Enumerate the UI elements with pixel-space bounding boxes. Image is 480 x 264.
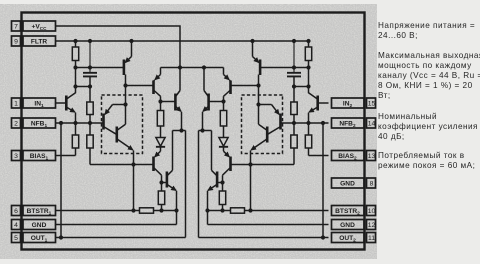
resistor R3: [72, 123, 78, 156]
svg-text:8: 8: [370, 181, 374, 188]
svg-text:15: 15: [368, 101, 376, 108]
pin 5 OUT (left): [12, 233, 56, 244]
svg-text:13: 13: [368, 153, 376, 160]
wire BTSTR: [208, 210, 329, 212]
pin 1 IN (left): [12, 98, 56, 109]
dashed box bias network: [102, 95, 143, 154]
dashed box bias network: [242, 95, 283, 154]
transistor Q8 (output): [162, 131, 177, 225]
resistor R12: [220, 102, 226, 138]
resistor R11: [291, 123, 297, 165]
resistor R14 (bootstrap): [231, 208, 245, 213]
diode VD2: [219, 138, 228, 152]
wire node cap-collector: [76, 86, 91, 88]
transistor Q2 (ripple filter): [124, 41, 132, 75]
transistor Q11: [259, 105, 281, 135]
pin 14 NFB (right): [332, 118, 376, 129]
wire driver feed: [258, 75, 260, 105]
transistor Q10 (ripple filter): [253, 41, 261, 75]
resistor R8: [305, 41, 311, 68]
wire driver feed: [125, 75, 127, 105]
pin 10 BTSTR (right): [332, 206, 376, 217]
svg-text:10: 10: [368, 208, 376, 215]
svg-text:5: 5: [14, 235, 18, 242]
pin 12 GND (right): [332, 220, 376, 230]
wire feedback vertical: [60, 123, 62, 238]
channel 1 amplifier: [56, 39, 186, 240]
svg-text:1: 1: [14, 101, 18, 108]
transistor Q16 (output): [208, 131, 223, 225]
svg-text:7: 7: [14, 24, 18, 31]
pin 15 IN (right): [332, 98, 376, 109]
svg-text:GND: GND: [32, 222, 47, 229]
wire driver collector link: [199, 130, 212, 132]
pin 6 BTSTR (left): [12, 206, 56, 217]
wire bias-driver base: [90, 164, 153, 166]
junction dots: [200, 39, 325, 240]
wire feedback vertical: [322, 123, 324, 238]
wire BIAS: [309, 155, 329, 157]
wire BTSTR: [56, 210, 177, 212]
resistor R2: [87, 102, 93, 123]
resistor R13: [219, 191, 225, 211]
svg-text:GND: GND: [340, 180, 355, 187]
diode VD1: [156, 138, 165, 152]
pin 2 NFB (left): [12, 118, 56, 129]
wire GND: [208, 224, 329, 226]
transistor Q5: [154, 68, 161, 102]
resistor R10: [305, 123, 311, 156]
wire OUT: [199, 131, 329, 238]
wire second stage base: [126, 85, 153, 87]
transistor Q12: [251, 105, 267, 150]
node Vcc rail junctions: [178, 65, 206, 69]
right side text block: [378, 21, 480, 41]
wire driver collector link: [173, 130, 186, 132]
transistor Q15 (driver PNP): [223, 151, 231, 191]
svg-text:6: 6: [14, 208, 18, 215]
resistor R5: [157, 102, 163, 138]
wire node cap-collector: [294, 86, 309, 88]
capacitor C2: [287, 41, 301, 102]
svg-text:GND: GND: [340, 222, 355, 229]
wire second stage base: [231, 85, 258, 87]
wire Vcc rail center: [161, 67, 224, 69]
transistor Q1 (input): [56, 93, 76, 123]
resistor R6: [158, 191, 164, 211]
resistor R9: [291, 102, 297, 123]
svg-text:14: 14: [368, 121, 376, 128]
transistor Q3: [104, 105, 126, 135]
transistor Q6: [161, 68, 182, 131]
pin 9 FLTR (left): [12, 36, 56, 46]
pin 13 BIAS (right): [332, 151, 376, 162]
svg-text:2: 2: [14, 121, 18, 128]
wire collector drop Q9: [308, 68, 310, 94]
svg-text:12: 12: [368, 222, 376, 229]
wire collector drop Q1: [75, 68, 77, 94]
transistor Q7 (driver PNP): [154, 151, 162, 191]
svg-text:9: 9: [14, 39, 18, 46]
wire bootstrap vertical: [133, 151, 135, 211]
channel 2 amplifier (mirror): [199, 39, 329, 240]
pin 7 +V (left): [12, 21, 56, 31]
outer IC box: [22, 13, 365, 250]
wire bootstrap vertical: [250, 151, 252, 211]
transistor Q13: [224, 68, 231, 102]
resistor R4: [87, 123, 93, 165]
wire FLTR: [56, 40, 309, 42]
pin 4 GND (left): [12, 220, 56, 230]
wire NFB: [281, 122, 328, 124]
wire BIAS: [56, 155, 76, 157]
wire NFB: [56, 122, 103, 124]
wire rail left: [76, 67, 124, 69]
wire OUT: [56, 131, 186, 238]
pin 11 OUT (right): [332, 233, 376, 244]
pin 8 GND (right): [332, 178, 376, 188]
pin 3 BIAS (left): [12, 151, 56, 162]
junction dots: [59, 39, 184, 240]
transistor Q14: [203, 68, 224, 131]
transistor Q4: [117, 105, 133, 150]
wire rail left: [261, 67, 309, 69]
wire +Vcc: [56, 26, 181, 68]
svg-text:11: 11: [368, 235, 375, 242]
svg-text:4: 4: [14, 222, 18, 229]
wire GND: [56, 224, 177, 226]
svg-text:3: 3: [14, 153, 18, 160]
transistor Q9 (input): [309, 93, 329, 123]
resistor R7 (bootstrap): [140, 208, 154, 213]
svg-text:FLTR: FLTR: [31, 38, 48, 45]
wire bias-driver base: [231, 164, 294, 166]
resistor R1: [72, 41, 78, 68]
capacitor C1: [83, 41, 97, 102]
